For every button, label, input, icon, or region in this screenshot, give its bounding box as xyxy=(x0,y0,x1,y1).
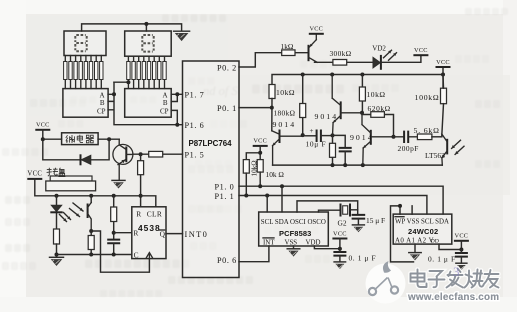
resistor R17 100k xyxy=(441,88,447,104)
junction R18 line2 xyxy=(244,194,248,198)
svg-text:1kΩ: 1kΩ xyxy=(281,42,294,51)
transistor Q1 relay driver xyxy=(113,139,133,180)
svg-text:P1. 7: P1. 7 xyxy=(185,91,205,100)
resistor R19 10k pullup SDA xyxy=(257,160,263,173)
wire Q2 to 300k xyxy=(315,61,374,63)
wire PCF SCL drop xyxy=(266,196,268,213)
wire OSCI loop xyxy=(297,201,358,215)
junction bus VCC xyxy=(441,73,445,77)
flyback diode VD1 xyxy=(43,139,109,164)
wire R11 to Q4 collector xyxy=(271,99,273,131)
wire SDA line P1.0 xyxy=(239,186,443,214)
junction Q5 collector node xyxy=(360,111,364,115)
resistor R6 (base pull to bus) xyxy=(140,154,142,207)
VCC sensor supply xyxy=(27,171,42,179)
svg-text:WP VSS SCL SDA: WP VSS SCL SDA xyxy=(395,218,449,225)
wire relay to Q1 collector xyxy=(98,138,119,140)
RTC U5 PCF8583 xyxy=(259,212,329,246)
svg-text:300kΩ: 300kΩ xyxy=(330,49,352,58)
svg-text:VCC: VCC xyxy=(414,47,428,54)
resistor R2 1k xyxy=(282,50,295,56)
VCC 24WC02 xyxy=(455,233,469,241)
junction rail C2 xyxy=(343,163,347,167)
capacitor C7 0.1uF xyxy=(456,250,467,264)
7-segment display DS2 xyxy=(125,31,172,56)
LED VD2 xyxy=(373,50,397,69)
transistor Q4 9014 first stage xyxy=(272,131,303,166)
junction pullup VCC xyxy=(258,151,262,155)
junction Q5 base node xyxy=(392,135,396,139)
top supply bus xyxy=(272,67,443,88)
MCU U1 P87LPC764 xyxy=(183,61,240,278)
wire VD2 to VCC xyxy=(381,55,421,62)
junction R6 bus xyxy=(139,194,143,198)
ground below R8 xyxy=(56,255,58,258)
junction LED rail xyxy=(55,253,59,257)
junction 24WC02 VDD node xyxy=(459,248,463,252)
junction WP xyxy=(398,204,402,208)
svg-text:9014: 9014 xyxy=(350,133,374,142)
svg-text:CLR: CLR xyxy=(147,210,162,219)
svg-text:P1. 5: P1. 5 xyxy=(185,151,205,160)
svg-text:P1. 0: P1. 0 xyxy=(215,183,235,192)
svg-text:VCC: VCC xyxy=(309,26,323,33)
wire RC to 4538 R pin xyxy=(114,232,132,234)
junction bus RC xyxy=(112,194,116,198)
svg-text:VDD: VDD xyxy=(306,239,321,246)
junction base node xyxy=(139,152,143,156)
svg-text:200pF: 200pF xyxy=(398,144,419,153)
svg-text:R: R xyxy=(136,210,141,219)
svg-text:P87LPC764: P87LPC764 xyxy=(189,139,233,148)
svg-text:0. 1 μ F: 0. 1 μ F xyxy=(428,255,456,264)
junction SDA drop PCF xyxy=(280,184,284,188)
capacitor C1 10uF xyxy=(310,127,333,141)
junction emitter node xyxy=(89,229,93,233)
svg-text:G2: G2 xyxy=(338,219,347,228)
wire PCF VDD xyxy=(314,246,340,249)
resistor R12 180k bias xyxy=(302,75,304,136)
resistor R5 (base series) xyxy=(149,151,163,157)
junction bus 180k xyxy=(301,73,305,77)
svg-text:B: B xyxy=(163,99,168,107)
svg-text:P0. 6: P0. 6 xyxy=(217,256,237,265)
IR LED D2 xyxy=(51,196,70,229)
resistor R9 emitter load xyxy=(90,231,92,255)
VCC Q2 emitter xyxy=(309,26,323,34)
junction SCL drop PCF xyxy=(265,194,269,198)
svg-text:4538: 4538 xyxy=(138,223,161,233)
junction rail R13 xyxy=(331,163,335,167)
svg-text:10kΩ: 10kΩ xyxy=(276,88,295,97)
junction bus 10k xyxy=(360,73,364,77)
wire PCF SDA drop xyxy=(281,186,283,212)
svg-text:10k Ω: 10k Ω xyxy=(266,170,285,179)
resistor R13 emitter xyxy=(332,135,334,165)
capacitor C2 filter xyxy=(340,148,351,165)
wire PCF INT to P0.6 xyxy=(239,246,269,262)
transistor Q2 PNP xyxy=(309,34,318,63)
svg-text:VCC: VCC xyxy=(455,233,469,240)
svg-text:DD: DD xyxy=(431,239,439,245)
svg-text:10kΩ: 10kΩ xyxy=(367,90,386,99)
VCC relay supply xyxy=(36,122,50,130)
svg-text:10μ F: 10μ F xyxy=(306,140,327,149)
wire OSCO to crystal xyxy=(319,210,358,212)
transistor Q5 9014 xyxy=(362,113,394,165)
junction C4 rail xyxy=(112,253,116,257)
junction U3 A node xyxy=(175,92,179,96)
svg-text:P1. 1: P1. 1 xyxy=(215,192,235,201)
wire VCC bus lower-left xyxy=(35,179,156,207)
svg-text:www.elecfans.com: www.elecfans.com xyxy=(407,292,499,303)
junction bus LED xyxy=(55,194,59,198)
junction P1.6 node xyxy=(175,123,179,127)
svg-text:VCC: VCC xyxy=(36,122,50,129)
svg-text:PCF8583: PCF8583 xyxy=(279,229,311,238)
svg-text:VSS: VSS xyxy=(285,239,298,246)
emitter rail wire xyxy=(273,164,443,166)
svg-text:P0. 2: P0. 2 xyxy=(217,63,237,72)
svg-text:VCC: VCC xyxy=(333,230,347,237)
svg-text:+: + xyxy=(310,127,314,135)
wire VCC to relay xyxy=(43,130,62,139)
VCC pullups xyxy=(253,138,267,146)
resistor R15 620k feedback xyxy=(362,113,394,137)
resistor R8 below LED xyxy=(54,229,60,244)
junction P0.1 node xyxy=(270,106,274,110)
VCC after VD2 xyxy=(414,47,428,55)
svg-text:P1. 6: P1. 6 xyxy=(185,121,205,130)
junction cascade xyxy=(126,80,130,84)
crystal G2 xyxy=(341,205,351,216)
svg-text:CP: CP xyxy=(97,107,106,115)
monostable U4 4538 xyxy=(132,207,166,260)
svg-text:5. 6kΩ: 5. 6kΩ xyxy=(414,126,440,135)
junction U2 A node xyxy=(112,92,116,96)
wire emitter to 4538 trigger xyxy=(91,231,149,272)
junction R9 rail xyxy=(89,253,93,257)
resistor R10 timing xyxy=(113,196,115,240)
ground below C6 xyxy=(334,262,346,269)
wire emitter node to C2 xyxy=(333,135,346,147)
wire VCC to pullup pair xyxy=(246,146,260,160)
wire U3 CP to P1.6 node xyxy=(171,110,182,124)
watermark text dianzifashaoyou xyxy=(411,269,499,288)
svg-text:9014: 9014 xyxy=(315,112,339,121)
resistor R3 300k xyxy=(333,60,347,66)
svg-text:620kΩ: 620kΩ xyxy=(368,104,391,113)
wire cascade to DS2 pin 1 xyxy=(114,81,128,83)
junction PCF VDD node xyxy=(338,247,342,251)
junction bus Q3 collector xyxy=(330,73,334,77)
capacitor C4 timing xyxy=(108,240,119,255)
svg-text:VD2: VD2 xyxy=(372,44,386,52)
svg-text:P0. 1: P0. 1 xyxy=(217,104,237,113)
resistor network bank for DS2 (8 segment resistors) xyxy=(127,56,167,88)
7-segment display DS1 xyxy=(64,31,106,56)
watermark logo xyxy=(366,261,406,304)
svg-text:B: B xyxy=(100,99,105,107)
bottom rail wire xyxy=(57,254,132,256)
VCC bus right xyxy=(436,59,450,67)
resistor R11 10k collector load xyxy=(269,85,275,99)
svg-text:LT563: LT563 xyxy=(425,151,445,160)
display driver U2 (left) xyxy=(63,89,108,118)
IR receiver LT563 xyxy=(442,134,464,165)
junction bus phototransistor xyxy=(89,194,93,198)
junction relay right xyxy=(107,137,111,141)
capacitor C5 15uF xyxy=(353,215,365,225)
resistor R14 10k xyxy=(361,75,363,113)
junction Q3 emitter node xyxy=(331,133,335,137)
junction rail Q5 emitter xyxy=(361,163,365,167)
wire P1.5 to base resistor xyxy=(133,153,183,155)
svg-text:SCL SDA OSCI OSCO: SCL SDA OSCI OSCO xyxy=(261,219,326,226)
svg-text:3: 3 xyxy=(453,264,460,279)
ground 24WC02 xyxy=(409,253,421,261)
ground below C7 xyxy=(456,263,467,270)
svg-text:VCC: VCC xyxy=(436,59,450,66)
transistor Q3 9014 follower xyxy=(332,75,362,136)
wire 24WC02 VDD xyxy=(439,244,461,249)
ground top-right of displays xyxy=(174,31,190,41)
svg-text:Q: Q xyxy=(160,230,166,239)
svg-text:VCC: VCC xyxy=(27,171,42,178)
wire base node to C1 xyxy=(303,135,317,137)
resistor R16 5.6k xyxy=(417,134,432,140)
svg-text:VCC: VCC xyxy=(253,138,267,145)
svg-text:INT0: INT0 xyxy=(185,230,209,239)
wire display top supply xyxy=(82,24,182,31)
ground below Q1 xyxy=(112,180,125,188)
relay K1 (继电器) xyxy=(62,133,99,145)
svg-text:24WC02: 24WC02 xyxy=(408,227,438,236)
wire U3 pins A,B to P1.7 xyxy=(171,94,182,101)
svg-text:0. 1 μ F: 0. 1 μ F xyxy=(349,253,377,262)
wire P0.2 to R 1k xyxy=(239,53,309,67)
dial (转盘) xyxy=(46,168,96,191)
svg-text:R: R xyxy=(133,229,138,238)
svg-text:15 μ F: 15 μ F xyxy=(366,216,385,225)
junction R19 line1 xyxy=(258,184,262,188)
wire U2 pins A,B,CP common xyxy=(108,82,177,125)
svg-text:INT: INT xyxy=(263,239,275,246)
capacitor C3 200pF xyxy=(394,132,418,142)
resistor network bank for DS1 (8 segment resistors) xyxy=(64,56,103,89)
wire SCL line P1.1 xyxy=(239,196,427,215)
VCC PCF xyxy=(333,230,347,238)
junction Q4 base node xyxy=(301,133,305,137)
wire 4538 Q to INT0 xyxy=(166,233,183,235)
resistor R18 10k pullup SCL xyxy=(243,160,249,174)
wire P0.1 tap xyxy=(239,107,272,109)
ground below C5 xyxy=(352,225,364,232)
svg-text:C: C xyxy=(134,250,139,259)
wire 100k to LT563 xyxy=(442,75,444,136)
svg-text:CP: CP xyxy=(160,107,169,115)
junction relay left xyxy=(41,137,45,141)
capacitor C6 0.1uF PCF xyxy=(334,249,345,262)
junction RC node xyxy=(112,231,116,235)
junction display top xyxy=(144,22,148,26)
wire 24WC02 bottom to ground xyxy=(414,244,416,252)
ground PCF VSS xyxy=(293,246,295,249)
svg-text:180kΩ: 180kΩ xyxy=(274,108,296,117)
svg-text:100kΩ: 100kΩ xyxy=(415,93,440,102)
display driver U3 (right) xyxy=(125,89,172,118)
wire WP VSS ground loop xyxy=(391,206,414,262)
phototransistor V1 xyxy=(70,196,92,231)
svg-text:9014: 9014 xyxy=(273,120,297,129)
EEPROM U6 24WC02 xyxy=(393,214,452,244)
